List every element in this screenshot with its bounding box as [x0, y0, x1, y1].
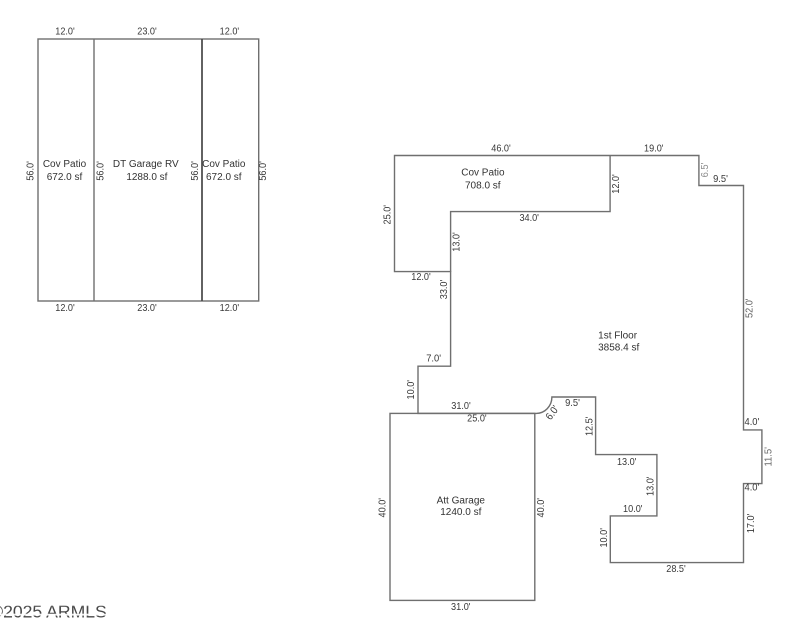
svg-text:Cov Patio: Cov Patio [43, 159, 87, 170]
svg-text:11.5': 11.5' [763, 447, 775, 467]
svg-text:672.0 sf: 672.0 sf [206, 172, 242, 183]
svg-text:17.0': 17.0' [745, 514, 757, 534]
svg-text:31.0': 31.0' [451, 400, 471, 412]
svg-text:1240.0 sf: 1240.0 sf [440, 507, 481, 518]
svg-text:28.5': 28.5' [666, 563, 686, 575]
svg-text:DT Garage RV: DT Garage RV [113, 159, 179, 170]
svg-text:56.0': 56.0' [257, 161, 269, 181]
svg-text:9.5': 9.5' [713, 173, 728, 185]
svg-text:4.0': 4.0' [745, 482, 760, 494]
svg-text:19.0': 19.0' [644, 142, 664, 154]
svg-text:672.0 sf: 672.0 sf [47, 172, 83, 183]
svg-text:33.0': 33.0' [438, 280, 450, 300]
svg-text:7.0': 7.0' [426, 353, 441, 365]
svg-text:Cov Patio: Cov Patio [202, 159, 246, 170]
svg-text:1st Floor: 1st Floor [598, 331, 638, 342]
svg-text:56.0': 56.0' [189, 161, 201, 181]
svg-text:46.0': 46.0' [491, 142, 511, 154]
svg-text:56.0': 56.0' [25, 161, 37, 181]
svg-text:31.0': 31.0' [451, 601, 471, 613]
svg-text:12.0': 12.0' [220, 25, 240, 37]
svg-text:40.0': 40.0' [535, 498, 547, 518]
svg-text:12.0': 12.0' [55, 25, 75, 37]
svg-text:25.0': 25.0' [467, 412, 487, 424]
svg-text:56.0': 56.0' [95, 161, 107, 181]
svg-text:23.0': 23.0' [137, 302, 157, 314]
svg-text:10.0': 10.0' [405, 380, 417, 400]
svg-text:13.0': 13.0' [451, 232, 463, 252]
svg-text:12.0': 12.0' [411, 271, 431, 283]
svg-text:52.0': 52.0' [744, 298, 756, 318]
svg-text:10.0': 10.0' [598, 528, 610, 548]
svg-text:13.0': 13.0' [617, 456, 637, 468]
svg-text:12.0': 12.0' [220, 302, 240, 314]
svg-text:3858.4 sf: 3858.4 sf [598, 342, 639, 353]
svg-text:4.0': 4.0' [745, 416, 760, 428]
svg-text:34.0': 34.0' [519, 212, 539, 224]
svg-text:12.0': 12.0' [55, 302, 75, 314]
svg-text:12.0': 12.0' [610, 174, 622, 194]
svg-text:10.0': 10.0' [623, 503, 643, 515]
svg-text:6.5': 6.5' [699, 163, 711, 178]
svg-text:40.0': 40.0' [376, 498, 388, 518]
svg-text:23.0': 23.0' [137, 25, 157, 37]
svg-text:12.5': 12.5' [583, 417, 595, 437]
svg-text:708.0 sf: 708.0 sf [465, 180, 501, 191]
svg-text:Att Garage: Att Garage [437, 496, 486, 507]
svg-text:13.0': 13.0' [644, 476, 656, 496]
svg-text:1288.0 sf: 1288.0 sf [126, 172, 167, 183]
svg-text:25.0': 25.0' [382, 205, 394, 225]
svg-text:Cov Patio: Cov Patio [461, 168, 505, 179]
svg-text:9.5': 9.5' [565, 397, 580, 409]
